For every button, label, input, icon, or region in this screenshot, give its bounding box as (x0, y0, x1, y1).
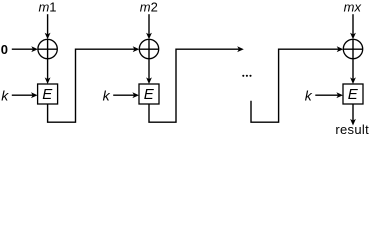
wire mx down arrow (350, 14, 356, 39)
svg-text:E: E (348, 86, 359, 103)
wire m1 down arrow (45, 14, 51, 39)
wire k2 to E2 arrow (113, 92, 139, 98)
svg-text:E: E (42, 86, 53, 103)
svg-text:k: k (305, 87, 313, 103)
wire xor1 to E1 arrow (45, 59, 51, 84)
wire 0 to xor1 arrow (12, 46, 38, 52)
wire into xor3 arrow (251, 46, 343, 122)
svg-text:m2: m2 (140, 0, 158, 14)
wire m2 down arrow (146, 14, 152, 39)
svg-text:m1: m1 (38, 0, 56, 14)
wire k1 to E1 arrow (12, 92, 38, 98)
wire E2 feedback out arrow (149, 46, 244, 122)
svg-text:E: E (144, 86, 155, 103)
block E1 (38, 84, 58, 104)
wire k3 to E3 arrow (315, 92, 343, 98)
wire xor2 to E2 arrow (146, 59, 152, 84)
xor X2 (139, 39, 158, 58)
xor X3 (343, 39, 362, 58)
svg-text:mx: mx (344, 0, 362, 14)
block E2 (139, 84, 159, 104)
wire E1 feedback to xor2 arrow (48, 46, 140, 122)
block E3 (343, 84, 363, 104)
svg-text:k: k (103, 87, 111, 103)
xor X1 (38, 39, 57, 58)
svg-text:0: 0 (1, 42, 8, 57)
wire E3 output arrow (350, 104, 356, 126)
wire xor3 to E3 arrow (350, 59, 356, 84)
ellipsis dots (242, 75, 251, 77)
svg-text:result: result (335, 122, 369, 136)
svg-text:k: k (1, 87, 9, 103)
